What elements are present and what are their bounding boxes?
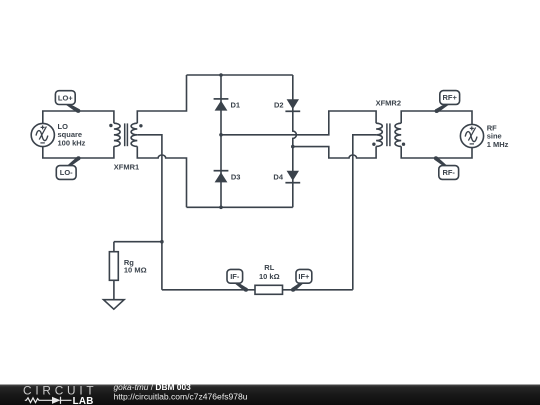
wire RF loop top — [401, 111, 472, 124]
diode D2 — [285, 99, 300, 111]
XFMR2 primary phase dot — [372, 143, 375, 146]
label V2 name and value — [487, 123, 509, 148]
wire node D1-D3 to XFMR2 top — [221, 111, 376, 135]
svg-text:D3: D3 — [231, 172, 241, 181]
svg-text:XFMR2: XFMR2 — [376, 99, 401, 108]
wire bridge bottom — [187, 206, 293, 208]
svg-text:1 MHz: 1 MHz — [487, 140, 509, 149]
svg-text:http://circuitlab.com/c7z476ef: http://circuitlab.com/c7z476efs978u — [114, 391, 248, 401]
label Rg name and value — [124, 258, 147, 275]
net flag LO+ — [55, 91, 80, 113]
wire IF- riser — [161, 242, 163, 290]
net flag RF+ — [435, 91, 460, 113]
svg-text:RL: RL — [264, 263, 274, 272]
XFMR2 secondary phase dot — [402, 143, 405, 146]
svg-text:RF-: RF- — [442, 168, 455, 177]
wire Rg top connection — [114, 241, 162, 243]
svg-text:IF+: IF+ — [298, 272, 310, 281]
junction Rg node — [160, 240, 164, 244]
transformer XFMR1 core — [125, 123, 128, 146]
svg-text:100 kHz: 100 kHz — [58, 138, 86, 147]
svg-text:LAB: LAB — [73, 396, 94, 405]
diode D4 — [285, 171, 300, 183]
junction bridge top — [219, 73, 223, 77]
svg-text:XFMR1: XFMR1 — [114, 162, 139, 171]
wire RF loop bottom — [401, 146, 472, 158]
wire Rg upper lead — [113, 242, 115, 252]
svg-text:IF-: IF- — [230, 272, 240, 281]
svg-text:LO-: LO- — [60, 168, 73, 177]
net flag IF- — [227, 269, 248, 291]
voltage source V2 RF — [460, 124, 483, 147]
footer logo schematic squiggle — [25, 397, 72, 404]
wire LO loop top — [43, 111, 114, 123]
junction bridge bottom — [219, 206, 223, 210]
svg-text:10 MΩ: 10 MΩ — [124, 266, 147, 275]
wire Rg lower lead — [113, 280, 115, 299]
transformer XFMR2 core — [387, 123, 390, 146]
net flag IF+ — [291, 269, 312, 291]
wire bridge top — [187, 74, 293, 76]
junction D2-D4 node — [291, 145, 295, 149]
wire LO loop bottom — [43, 146, 114, 158]
diode D3 — [214, 171, 229, 183]
XFMR1 secondary phase dot — [139, 124, 142, 127]
voltage source V1 LO — [31, 123, 54, 146]
wire IF rail right — [283, 289, 353, 291]
svg-text:RF+: RF+ — [443, 93, 458, 102]
resistor RL — [255, 285, 283, 294]
wire XFMR1 secondary bottom to bridge (hop over tap) — [137, 146, 186, 207]
net flag LO- — [56, 156, 80, 179]
svg-text:D2: D2 — [274, 101, 284, 110]
transformer XFMR2 primary winding — [376, 123, 382, 146]
XFMR1 primary phase dot — [109, 124, 112, 127]
wire XFMR2 center tap down to IF+ — [353, 135, 376, 290]
diode D1 — [214, 99, 229, 111]
wire XFMR1 secondary top to bridge — [137, 75, 186, 123]
wire bridge right column (hops over middle wire) — [293, 75, 297, 207]
wire node D2-D4 to XFMR2 bottom (hop over IF+ riser) — [293, 146, 376, 158]
label V1 name and value — [58, 122, 86, 147]
resistor Rg — [109, 252, 118, 281]
junction D1-D3 node — [219, 133, 223, 137]
svg-text:10 kΩ: 10 kΩ — [259, 272, 280, 281]
svg-text:D1: D1 — [231, 101, 241, 110]
svg-text:D4: D4 — [273, 172, 283, 181]
wire bridge left column — [220, 75, 222, 207]
svg-text:LO+: LO+ — [58, 93, 73, 102]
transformer XFMR1 secondary winding — [131, 123, 137, 146]
ground — [104, 300, 125, 310]
transformer XFMR1 primary winding — [114, 123, 120, 146]
wire XFMR1 center tap down to Rg node — [137, 135, 162, 242]
wire IF rail left — [162, 289, 255, 291]
net flag RF- — [434, 156, 459, 179]
transformer XFMR2 secondary winding — [395, 123, 401, 146]
label RL name and value — [259, 263, 280, 281]
footer bar — [0, 385, 540, 405]
